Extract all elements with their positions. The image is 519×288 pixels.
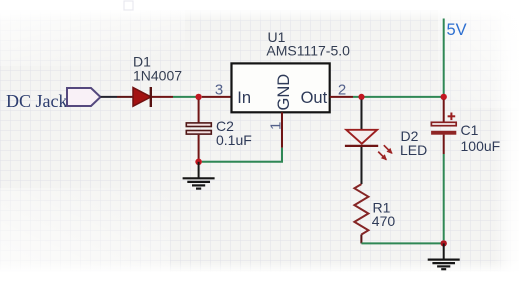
svg-text:1N4007: 1N4007 <box>133 68 182 84</box>
port DC Jack label <box>6 91 68 111</box>
wire 5V rail vertical <box>443 19 445 97</box>
svg-text:In: In <box>237 89 251 107</box>
label C2 <box>216 118 234 134</box>
svg-text:AMS1117-5.0: AMS1117-5.0 <box>266 42 350 58</box>
LED D2 emission arrows <box>378 145 392 160</box>
node E junction dot <box>441 240 447 246</box>
pin 3 wire to U1 <box>202 96 232 98</box>
wire LED to R1 <box>361 147 363 184</box>
label R1 <box>373 200 391 216</box>
diode D1 <box>133 87 173 107</box>
capacitor C1 plus sign <box>448 113 456 121</box>
pin name In <box>237 89 251 107</box>
pin number 2 <box>338 82 346 99</box>
port DC Jack symbol <box>67 88 101 106</box>
capacitor C1 top pin <box>443 100 445 123</box>
capacitor C2 top pin <box>198 100 200 123</box>
net label 5V <box>447 21 467 39</box>
svg-text:3: 3 <box>215 81 223 98</box>
wire C1 to node E <box>443 154 445 240</box>
capacitor C2 plates <box>186 123 211 134</box>
label C1 <box>461 122 479 138</box>
pin name GND <box>275 74 293 111</box>
svg-text:470: 470 <box>372 213 396 229</box>
value 100uF <box>461 138 501 154</box>
svg-text:Out: Out <box>301 89 328 107</box>
svg-text:0.1uF: 0.1uF <box>216 132 252 148</box>
pin name Out <box>301 89 328 107</box>
wire Out to 5V rail <box>353 96 444 98</box>
svg-text:DC Jack: DC Jack <box>6 91 68 111</box>
label U1 <box>268 29 286 45</box>
ground under C1 <box>428 243 460 269</box>
capacitor C1 plates <box>431 122 456 134</box>
svg-text:100uF: 100uF <box>461 138 501 154</box>
node D junction dot <box>195 159 202 166</box>
pin number 3 <box>215 81 223 98</box>
svg-text:GND: GND <box>275 74 293 111</box>
svg-text:2: 2 <box>338 82 346 99</box>
svg-text:C1: C1 <box>461 122 479 138</box>
capacitor C2 bottom pin <box>198 135 200 159</box>
node C junction dot <box>441 94 447 100</box>
wire node B to LED <box>361 100 363 130</box>
wire GND pin to node D <box>202 148 282 162</box>
label D1 <box>133 54 151 70</box>
node A junction dot <box>195 94 201 100</box>
svg-text:5V: 5V <box>447 21 467 39</box>
pin number 1 <box>268 122 285 130</box>
value 1N4007 <box>133 68 182 84</box>
value 470 <box>372 213 396 229</box>
pin 1 GND wire from U1 <box>281 112 283 148</box>
wire D1 to node A <box>173 96 196 98</box>
wire port to D1 <box>101 96 134 98</box>
LED D2 <box>345 130 378 146</box>
svg-text:LED: LED <box>400 142 427 158</box>
ground under C2 <box>183 162 215 189</box>
resistor R1 <box>354 184 368 243</box>
op-amp U1 body <box>232 63 330 112</box>
value LED <box>400 142 427 158</box>
pin 2 wire from Out <box>330 96 353 98</box>
capacitor C1 bottom pin <box>443 135 445 154</box>
value 0.1uF <box>216 132 252 148</box>
svg-text:1: 1 <box>268 122 285 130</box>
value AMS1117-5.0 <box>266 42 350 58</box>
wire R1 to node E <box>361 242 443 244</box>
label D2 <box>401 128 419 144</box>
node B junction dot <box>358 94 364 100</box>
